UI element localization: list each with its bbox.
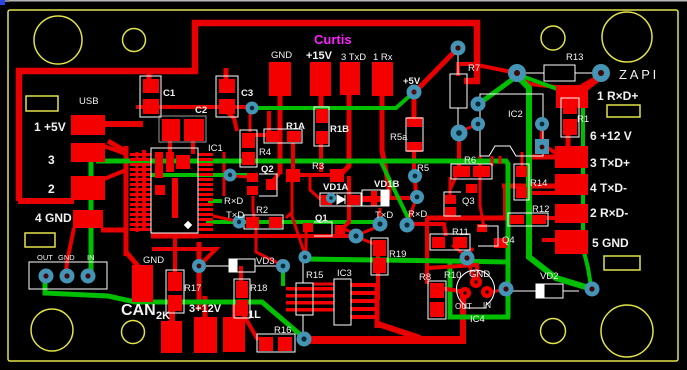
wire C1-C2-C3 bus (136, 105, 252, 109)
wire via C459 down to R6 (457, 135, 461, 167)
wire red from via601 left (556, 76, 599, 87)
wire via467 to R11 (452, 245, 466, 256)
transistor Q4 pad (494, 238, 507, 248)
via IC2 D (535, 117, 549, 131)
svg-text:VD2: VD2 (540, 271, 558, 282)
wire green rail diagonal to via RxD (381, 162, 410, 222)
svg-text:R19: R19 (389, 249, 406, 260)
diode VD2 leads (512, 290, 536, 292)
wire via239 to R2 (238, 221, 248, 224)
mounting hole top-left big (34, 16, 82, 64)
svg-text:6 +12 V: 6 +12 V (590, 129, 632, 143)
svg-text:C2: C2 (195, 105, 207, 116)
via +5V (407, 85, 422, 100)
wire R14 top to IC2 (521, 152, 524, 168)
IC1 right pin stripes (198, 153, 213, 231)
wire C3 stub up (224, 68, 229, 80)
wire C3 to R4 (227, 112, 237, 131)
resistor R1B outline (314, 107, 329, 146)
resistor R14 pads (516, 166, 527, 177)
wire R3 to R2 and via305 (292, 182, 304, 252)
wire R3 to VD1A (310, 177, 320, 199)
svg-text:R5a: R5a (390, 132, 408, 143)
transistor Q3 pads (445, 195, 456, 204)
wire GND top pad down (278, 94, 283, 174)
wire via380 to via356 (358, 226, 379, 235)
wire R17 to pad A (169, 306, 175, 324)
resistor R7 leads (457, 55, 459, 74)
svg-text:R17: R17 (184, 283, 201, 294)
via R7 top (451, 41, 466, 56)
wire main power loop (19, 23, 477, 201)
wire green RxD short rail (206, 220, 378, 224)
wire Q3 link down (449, 177, 452, 196)
via RxD (400, 218, 415, 233)
svg-text:VD3: VD3 (256, 256, 274, 267)
wire pad4 down to GND via (66, 228, 74, 272)
svg-text:R6: R6 (464, 155, 476, 166)
resistor R1A outline (264, 129, 302, 143)
IC4 outline (456, 270, 494, 308)
yellow rect right lower (604, 256, 640, 270)
svg-text:C1: C1 (163, 88, 176, 99)
via VD1A (326, 193, 336, 203)
IC4 pad IN (481, 286, 493, 298)
wire IC1 right to via239 (213, 216, 236, 222)
via R2 left (233, 216, 246, 229)
diode VD2 outline (536, 284, 563, 298)
wire green long mid rail (96, 161, 508, 318)
via VD3 left (192, 259, 206, 273)
mounting hole top small (123, 29, 146, 52)
resistor R13 leads (524, 72, 544, 74)
resistor R17 pads (168, 272, 182, 291)
pad right 5GND (555, 230, 588, 254)
svg-text:R14: R14 (530, 178, 547, 189)
wire via601 down to RxD+ pad (570, 78, 600, 100)
wire 3TxD column lower (343, 176, 349, 228)
resistor R5a pads (407, 117, 422, 127)
wire via D542 to square pad (541, 126, 542, 142)
wire green IC1 rail (150, 173, 252, 177)
wire R10 riser (460, 296, 466, 342)
wire R1A right pad to R3 (291, 143, 295, 170)
wire via252 down to R4 (249, 112, 252, 132)
diode VD1A outline (320, 193, 361, 206)
resistor R4 outline (240, 130, 257, 167)
wire via417 to VD1B (389, 196, 414, 200)
via Q4 lower (460, 251, 475, 266)
svg-text:GND: GND (469, 269, 490, 280)
pad 3TxD (340, 62, 360, 95)
pad GND mid (132, 265, 153, 302)
wire vertical bus left of IC1 (124, 146, 129, 256)
svg-text:1L: 1L (248, 309, 261, 321)
via IC2 C (451, 125, 468, 142)
pad bottom B (194, 317, 217, 353)
wire IC1 right bus (223, 152, 226, 196)
wire green IC4 ring (450, 263, 510, 317)
pad right 2RxD- (555, 204, 588, 223)
via connector OUT (39, 269, 54, 284)
diode VD1B outline (362, 190, 389, 206)
mounting hole top-right small (541, 26, 565, 50)
resistor R19 pads (373, 240, 386, 256)
via TxD (373, 217, 388, 232)
wire via458 to +5V via diagonal (415, 48, 458, 92)
IC2 outline (480, 94, 543, 156)
resistor R3 pads (286, 169, 300, 182)
pad right 1RxD+ (556, 86, 588, 108)
via R5 lower (410, 190, 424, 204)
svg-text:+5V: +5V (403, 76, 421, 87)
resistor R1A pads (266, 131, 279, 142)
svg-text:R10: R10 (444, 270, 461, 281)
yellow rect USB label box (26, 96, 58, 111)
wire via230 into IC1 pins (212, 174, 228, 177)
via R16 right (297, 332, 312, 347)
wire Q1 to via356 (344, 229, 356, 234)
wire via230 to Q2 pad (233, 176, 248, 177)
wire green via517 down to via592 (519, 78, 589, 288)
wire RxD via to R11 (413, 224, 446, 236)
resistor R5a outline (406, 118, 423, 151)
resistor R15 leads (302, 262, 304, 283)
wire +5V via down to R5a (412, 94, 417, 120)
wire IC2 bottom stubs (491, 156, 494, 166)
resistor R16 pads (259, 337, 273, 351)
wire IC1 bottom to R17 (173, 236, 177, 272)
svg-text:ZAPI: ZAPI (619, 67, 659, 82)
svg-text:IN: IN (483, 301, 491, 310)
resistor R16 outline (257, 334, 295, 352)
wire IC4 GND pad to via467 (468, 262, 474, 278)
wire R8 to OUT pad (432, 287, 460, 291)
svg-text:Q2: Q2 (261, 164, 274, 175)
capacitor C2 pads (162, 119, 180, 141)
transistor Q2 pads (247, 173, 258, 182)
mounting hole bottom-left big (31, 309, 73, 351)
diode VD3 leads (206, 265, 229, 267)
svg-text:4 GND: 4 GND (35, 211, 72, 225)
transistor Q1 outline (314, 222, 332, 236)
wire R5a down to via (412, 148, 416, 176)
wire R1 bottom to 3TxD+ (566, 134, 571, 150)
resistor R1 outline (561, 98, 579, 137)
wire R3 bar (288, 173, 343, 177)
wire R1B down (319, 142, 323, 172)
wire green via283 stub (281, 268, 285, 286)
wire R11 right to via467 (469, 248, 473, 254)
wire 5GND stub (542, 238, 556, 242)
pad bottom C (223, 317, 245, 352)
svg-text:IC2: IC2 (508, 109, 523, 120)
wire Q4 to 4TxD- pad (502, 184, 556, 189)
wire IC1 left pin bus (142, 150, 146, 231)
wire green RxD stub (208, 199, 222, 203)
diode VD1B band (381, 190, 389, 206)
wire C1 stub up (147, 68, 152, 80)
via mid356 (349, 229, 364, 244)
resistor R18 pads (236, 281, 248, 298)
svg-text:5 GND: 5 GND (592, 236, 629, 250)
wire 3TxD pad down to R3 (341, 94, 349, 174)
resistor R4 pads (242, 133, 255, 148)
svg-text:R3: R3 (312, 161, 324, 172)
transistor Q2 outline (259, 174, 277, 196)
pad bottom A (161, 321, 182, 353)
via connector IN (81, 269, 96, 284)
wire R19 down to IC3 (376, 256, 380, 300)
svg-text:T×D: T×D (375, 210, 393, 221)
window border (0, 0, 687, 5)
IC1 inner pads (155, 152, 190, 218)
svg-text:R11: R11 (452, 227, 469, 238)
via bottom right (585, 282, 600, 297)
svg-text:1 Rx: 1 Rx (373, 52, 393, 63)
via R13 left (508, 64, 526, 82)
via R5 upper (408, 169, 422, 183)
svg-text:+15V: +15V (306, 50, 333, 62)
via square pad E (535, 139, 549, 154)
svg-text:VD1A: VD1A (323, 182, 348, 193)
transistor Q1 pads (303, 223, 313, 232)
via IC4 right (499, 282, 514, 297)
wire GND column to Q2 (273, 172, 280, 181)
svg-text:R16: R16 (274, 325, 291, 336)
pad 3 (71, 143, 105, 162)
pad right 3TxD+ (555, 146, 588, 168)
mounting hole bottom-right big (601, 305, 653, 357)
pad 2 (71, 176, 105, 200)
resistor R13 outline (544, 65, 575, 81)
svg-text:GND: GND (271, 50, 292, 61)
wire R18 bottom to R16 (242, 312, 258, 340)
capacitor C3 outline (216, 76, 238, 117)
wire IC1 bottom long rail to via356 (155, 234, 352, 238)
resistor R1B pads (316, 109, 328, 123)
svg-text:R4: R4 (259, 147, 271, 158)
wire via380 up (379, 208, 382, 221)
diode VD3 outline (229, 259, 255, 272)
wire C2 pads down into IC1 (168, 140, 172, 162)
svg-text:Curtis: Curtis (314, 32, 352, 47)
mounting hole top-right big (602, 12, 652, 62)
wire via199 riser (197, 242, 202, 310)
IC3 outline (334, 279, 351, 325)
svg-text:R1: R1 (577, 114, 589, 125)
transistor Q3 outline (444, 192, 461, 216)
svg-text:R13: R13 (566, 52, 583, 63)
mounting hole bottom-left small (122, 321, 145, 344)
svg-text:R1B: R1B (330, 124, 349, 135)
resistor R6 outline (451, 164, 492, 179)
via C-line (246, 102, 259, 115)
wire green via517 diagonal to right rail (519, 75, 591, 286)
IC4 pad OUT (459, 287, 471, 299)
IC3 right pin stripes (351, 283, 377, 287)
wire IC3 bus to bottom run (378, 324, 420, 338)
svg-text:USB: USB (79, 96, 99, 107)
wire +15V pad down to R1B (319, 94, 324, 112)
resistor R6 pads (453, 166, 470, 177)
resistor R2 outline (244, 215, 283, 229)
svg-text:IC4: IC4 (470, 314, 485, 325)
resistor R1 pads (563, 97, 577, 114)
wire bus down to R8 (425, 218, 429, 284)
resistor R14 outline (514, 164, 529, 200)
svg-text:R15: R15 (306, 270, 323, 281)
diode VD1A pads (321, 195, 332, 205)
wire IC3 top to R15 (313, 283, 334, 286)
via IC2 B (471, 117, 485, 131)
wire via517 under R13 (519, 76, 556, 87)
resistor R2 pads (246, 217, 259, 228)
svg-text:R12: R12 (532, 204, 549, 215)
IC4 pad holes (463, 291, 466, 294)
connector box outline (29, 262, 107, 289)
wire pad B riser (203, 296, 208, 320)
wire R12 bus left (426, 216, 512, 221)
wire 1Rx pad down to VD1B (382, 94, 389, 197)
via IC2 A (471, 97, 486, 112)
pad +15V (310, 62, 331, 96)
pad GND top (269, 62, 291, 96)
diode VD1B inner traces (371, 191, 377, 206)
wire green via305 to IC4 U (306, 259, 509, 262)
svg-text:GND: GND (143, 255, 164, 266)
via IC1 right (224, 169, 237, 182)
wire pad1 to right (103, 121, 143, 127)
diode VD2 band (536, 284, 544, 298)
wire R1A left link (244, 133, 268, 137)
pad 4 GND (73, 210, 103, 228)
wire R6 left down (450, 177, 456, 190)
wire square E diag (548, 148, 557, 154)
wire via356 to R19 (357, 237, 377, 245)
wire R18 top riser (239, 266, 243, 283)
resistor R8 pads (430, 283, 444, 298)
IC4 pad GND (470, 276, 482, 288)
resistor R12 pads (510, 215, 524, 224)
svg-text:VD1B: VD1B (374, 179, 399, 190)
pad 1Rx (372, 62, 393, 96)
svg-text:R×D: R×D (224, 196, 243, 207)
svg-text:1 R×D+: 1 R×D+ (597, 89, 638, 103)
wire R7 to via517 (458, 64, 517, 76)
resistor R17 outline (166, 270, 184, 313)
wire left bottom stub to pad2 (18, 198, 74, 204)
svg-text:IN: IN (87, 253, 95, 262)
resistor R12 outline (508, 213, 548, 226)
wire IC4 IN pad to via506 (490, 290, 502, 292)
svg-text:2K: 2K (156, 310, 170, 322)
capacitor C1 outline (140, 76, 161, 117)
svg-text:3 TxD: 3 TxD (341, 52, 366, 63)
mounting hole bottom-right small (541, 319, 566, 344)
via R13 right (592, 64, 610, 82)
svg-text:IC3: IC3 (337, 268, 352, 279)
svg-text:Q1: Q1 (315, 213, 328, 224)
wire green C-line to +5V via (254, 93, 413, 108)
wire R1A left pad up (267, 111, 271, 131)
diode VD1A symbol (337, 195, 345, 204)
via mid283 (276, 259, 290, 273)
IC3 left pin stripes (286, 287, 334, 291)
wire Q2 down (252, 196, 255, 212)
wire R14 bottom to 4TxD- (526, 191, 556, 195)
wire via C459 to via B478 (461, 125, 476, 131)
resistor R8 outline (428, 281, 446, 319)
IC1 left pin stripes (130, 153, 151, 231)
wire R12 to 2RxD- pad (545, 216, 556, 220)
yellow rect right upper (607, 105, 640, 117)
wire IC3 right bus (375, 283, 380, 328)
pad 1 +5V (71, 115, 105, 135)
svg-text:CAN: CAN (121, 302, 156, 319)
resistor R18 outline (234, 279, 250, 318)
svg-text:3 T×D+: 3 T×D+ (590, 156, 630, 170)
wire Q1 to via305 (305, 232, 308, 256)
svg-text:GND: GND (58, 253, 75, 262)
wire via407 up diagonal (408, 201, 415, 223)
pad right 4TxD- (555, 174, 588, 195)
wire IC1 bottom bar (151, 234, 198, 239)
svg-text:C3: C3 (241, 88, 253, 99)
IC1 body outline (151, 148, 198, 233)
diode VD3 band (229, 259, 237, 272)
wire green via A to via517 (480, 76, 517, 103)
wire IC1 to via199 (152, 249, 216, 262)
transistor Q4 outline (478, 226, 498, 246)
svg-text:R8: R8 (419, 272, 431, 283)
capacitor C1 pads (143, 79, 159, 93)
svg-text:Q4: Q4 (502, 235, 515, 246)
capacitor C2 outline (159, 116, 206, 142)
wire IC2 right pin to via D (542, 118, 543, 121)
svg-text:2: 2 (48, 182, 55, 196)
resistor R19 outline (371, 238, 388, 275)
via connector GND (60, 269, 75, 284)
wire via415 to via417 (415, 178, 416, 197)
wire Q4 riser (503, 186, 507, 216)
svg-text:4 T×D-: 4 T×D- (590, 181, 627, 195)
svg-text:R×D: R×D (408, 209, 427, 220)
resistor R15 outline (296, 283, 313, 315)
svg-text:IC1: IC1 (208, 143, 223, 154)
wire Q2 to via283 (253, 210, 278, 263)
yellow rect left lower (25, 233, 55, 247)
via mid305 (299, 251, 312, 264)
svg-text:R18: R18 (250, 283, 267, 294)
svg-text:R7: R7 (468, 63, 480, 74)
svg-text:2 R×D-: 2 R×D- (590, 206, 628, 220)
svg-text:OUT: OUT (37, 253, 53, 262)
wire left bus to GND pad (126, 252, 138, 266)
wire green connector to CAN rail (45, 280, 303, 337)
svg-text:R1A: R1A (286, 121, 305, 132)
capacitor C3 pads (219, 79, 235, 93)
wire red under IC4 ring top (427, 265, 478, 281)
svg-text:3: 3 (48, 153, 55, 167)
IC1 pin1 diamond (184, 221, 192, 229)
wire 3TxD+ stub (527, 155, 556, 160)
svg-text:T×D: T×D (226, 210, 244, 221)
wire pad C riser to R18 (232, 300, 236, 320)
svg-text:Q3: Q3 (462, 196, 475, 207)
svg-text:3+12V: 3+12V (189, 303, 222, 315)
svg-text:OUT: OUT (455, 302, 472, 311)
